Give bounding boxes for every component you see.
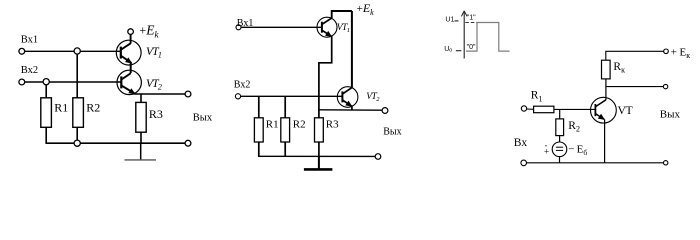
svg-text:R2: R2 [86, 101, 100, 115]
svg-text:R1: R1 [266, 119, 279, 131]
wire output node to R3 (circuit 1) [140, 94, 142, 102]
output terminal collector (circuit 3) [663, 84, 667, 88]
svg-text:U1: U1 [445, 16, 454, 23]
wire junction to R2 (circuit 3) [559, 109, 561, 119]
resistor Rк (circuit 3) [602, 60, 611, 79]
dash U1 level (inset) [455, 20, 459, 22]
wire bottom rail (circuit 2) [258, 155, 375, 157]
svg-text:Вх2: Вх2 [234, 80, 251, 91]
terminal bottom right (circuit 3) [664, 161, 668, 165]
dash Uo level (inset) [456, 50, 461, 52]
wire R1 bottom (circuit 2) [258, 142, 260, 156]
wire collector to output terminal (circuit 3) [606, 86, 664, 88]
transistor VT1 (circuit 2) [317, 17, 337, 37]
power terminal +Eк (circuit 3) [664, 49, 669, 54]
output terminal bottom (circuit 1) [185, 140, 191, 146]
output terminal bottom (circuit 2) [375, 154, 381, 160]
wire Вх2 to VT2 base (circuit 2) [241, 95, 343, 97]
svg-text:Вх: Вх [514, 137, 528, 149]
wire R3 bottom (circuit 2) [318, 142, 320, 156]
svg-text:Вх1: Вх1 [237, 18, 254, 29]
wire junction to R1 (circuit 1) [45, 84, 47, 98]
waveform axis (circuit 3 inset) [461, 11, 467, 59]
wire VT1 emitter to VT2 collector (circuit 1) [130, 63, 132, 73]
ground (circuit 1) [125, 143, 157, 160]
power terminal +Ek (circuit 1) [128, 29, 134, 35]
svg-text:VT: VT [618, 103, 634, 117]
input terminal Вх1 (circuit 1) [19, 48, 25, 54]
wire Вх1 to VT1 base (circuit 2) [241, 26, 322, 28]
wire emitter output (circuit 2) [319, 109, 382, 111]
svg-text:R3: R3 [149, 107, 163, 121]
svg-text:R3: R3 [326, 119, 339, 131]
resistor R3 (circuit 2) [315, 118, 324, 142]
wire junction to R2 (circuit 1) [76, 54, 78, 98]
wire VT1 collector to +Ek rail (circuit 2) [332, 11, 352, 18]
transistor VT1 (circuit 1) [116, 40, 141, 65]
input terminal Вх2 (circuit 1) [19, 79, 25, 85]
wire VT1 collector to +Ek terminal (circuit 1) [130, 34, 132, 43]
resistor R3 (circuit 1) [136, 102, 146, 132]
svg-text:Вых: Вых [383, 126, 401, 137]
wire input terminal to R1 (circuit 3) [527, 108, 534, 110]
wire Вх1 to VT1 base (circuit 1) [25, 50, 121, 52]
svg-text:Вых: Вых [193, 112, 213, 123]
wire VT2 emitter to output (circuit 1) [134, 93, 186, 95]
wire R2 tap (circuit 2) [284, 96, 286, 118]
resistor R2 (circuit 2) [281, 118, 290, 142]
svg-text:R1: R1 [54, 101, 68, 115]
svg-text:+: + [544, 147, 549, 157]
transistor VT2 (circuit 2) [337, 87, 358, 108]
wire VT1 emitter step to R3 node (circuit 2) [319, 36, 332, 118]
resistor R1 (circuit 1) [41, 98, 52, 128]
output terminal top (circuit 1) [185, 91, 191, 97]
waveform pulse trace (inset) [466, 23, 510, 52]
svg-text:Uo: Uo [444, 46, 452, 54]
wire R1 tap (circuit 2) [258, 96, 260, 118]
wire Rк top to +Eк terminal (circuit 3) [606, 51, 664, 60]
wire R2 bottom to rail (circuit 1) [76, 127, 78, 143]
wire battery to bottom rail (circuit 3) [559, 157, 561, 163]
wire R3 bottom to rail (circuit 1) [140, 132, 142, 143]
battery E6 (circuit 3) [552, 142, 567, 157]
wire R1 bottom to rail (circuit 1) [45, 127, 47, 143]
ground (circuit 2) [304, 156, 333, 169]
resistor R1 (circuit 3) [534, 106, 554, 113]
resistor R2 (circuit 3) [556, 119, 564, 136]
wire R2 to battery (circuit 3) [559, 136, 561, 142]
svg-text:Вх1: Вх1 [21, 34, 38, 45]
waveform dashed high level (inset) [465, 22, 476, 24]
transistor VT2 (circuit 1) [117, 70, 141, 94]
wire R2 bottom (circuit 2) [284, 142, 286, 156]
svg-text:Вых: Вых [660, 109, 681, 121]
svg-text:R2: R2 [293, 119, 306, 131]
input terminal Вх2 (circuit 2) [235, 94, 240, 99]
wire emitter to bottom rail (circuit 3) [604, 119, 606, 162]
wire R1 to VT base (circuit 3) [554, 108, 596, 110]
node junction on bottom rail (circuit 1) [74, 140, 80, 146]
svg-text:"0": "0" [467, 44, 476, 51]
node junction on Вх1 wire (circuit 1) [74, 48, 80, 54]
node junction on Вх2 wire (circuit 1) [43, 79, 49, 85]
transistor VT (circuit 3) [591, 97, 617, 123]
wire bottom rail (circuit 1) [45, 142, 185, 144]
wire VT2 emitter stub (circuit 2) [351, 106, 353, 110]
svg-text:"1": "1" [467, 15, 476, 22]
input terminal Вх (circuit 3) [521, 106, 526, 111]
wire bottom rail (circuit 3) [526, 162, 663, 164]
wire +Ek rail to VT2 collector (circuit 2) [351, 11, 353, 87]
output terminal top (circuit 2) [382, 108, 388, 114]
wire Вх2 to VT2 base (circuit 1) [25, 81, 122, 83]
terminal bottom left (circuit 3) [521, 160, 527, 166]
resistor R1 (circuit 2) [254, 118, 263, 142]
svg-text:Вх2: Вх2 [21, 65, 38, 76]
resistor R2 (circuit 1) [73, 98, 84, 128]
wire collector to Rк (circuit 3) [605, 79, 607, 100]
input terminal Вх1 (circuit 2) [236, 25, 241, 30]
